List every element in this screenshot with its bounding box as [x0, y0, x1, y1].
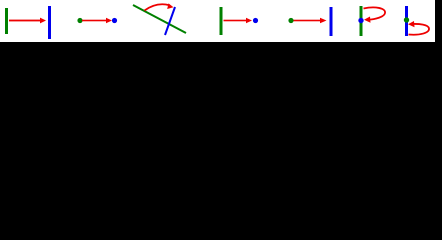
diagram 7: green dot	[404, 17, 409, 22]
diagram 2: red arrow	[82, 18, 112, 23]
diagram 5: green dot	[288, 18, 293, 23]
white band	[0, 0, 435, 42]
diagram 3: blue line	[165, 7, 175, 35]
diagram 3: green line	[133, 5, 186, 33]
diagram 2: blue dot	[112, 18, 117, 23]
black canvas	[0, 0, 442, 64]
diagram 1: blue bar	[48, 6, 51, 39]
diagram 2: green dot	[77, 18, 82, 23]
diagram 6: green bar	[360, 6, 363, 36]
diagram 7: blue bar	[405, 6, 408, 36]
diagram 6: blue dot	[358, 18, 363, 23]
diagram 5: blue bar	[330, 7, 333, 36]
diagram 3: red arc arrow	[145, 3, 174, 10]
diagram 4: blue dot	[253, 18, 258, 23]
diagram 1: red arrow	[9, 18, 46, 24]
diagram 4: red arrow	[224, 18, 253, 23]
diagram 5: red arrow	[294, 18, 327, 23]
diagram 4: green bar	[220, 7, 223, 35]
diagram 7: red loop arrow	[408, 21, 429, 35]
diagram 6: red loop arrow	[364, 7, 386, 22]
diagram 1: green bar	[5, 8, 8, 34]
